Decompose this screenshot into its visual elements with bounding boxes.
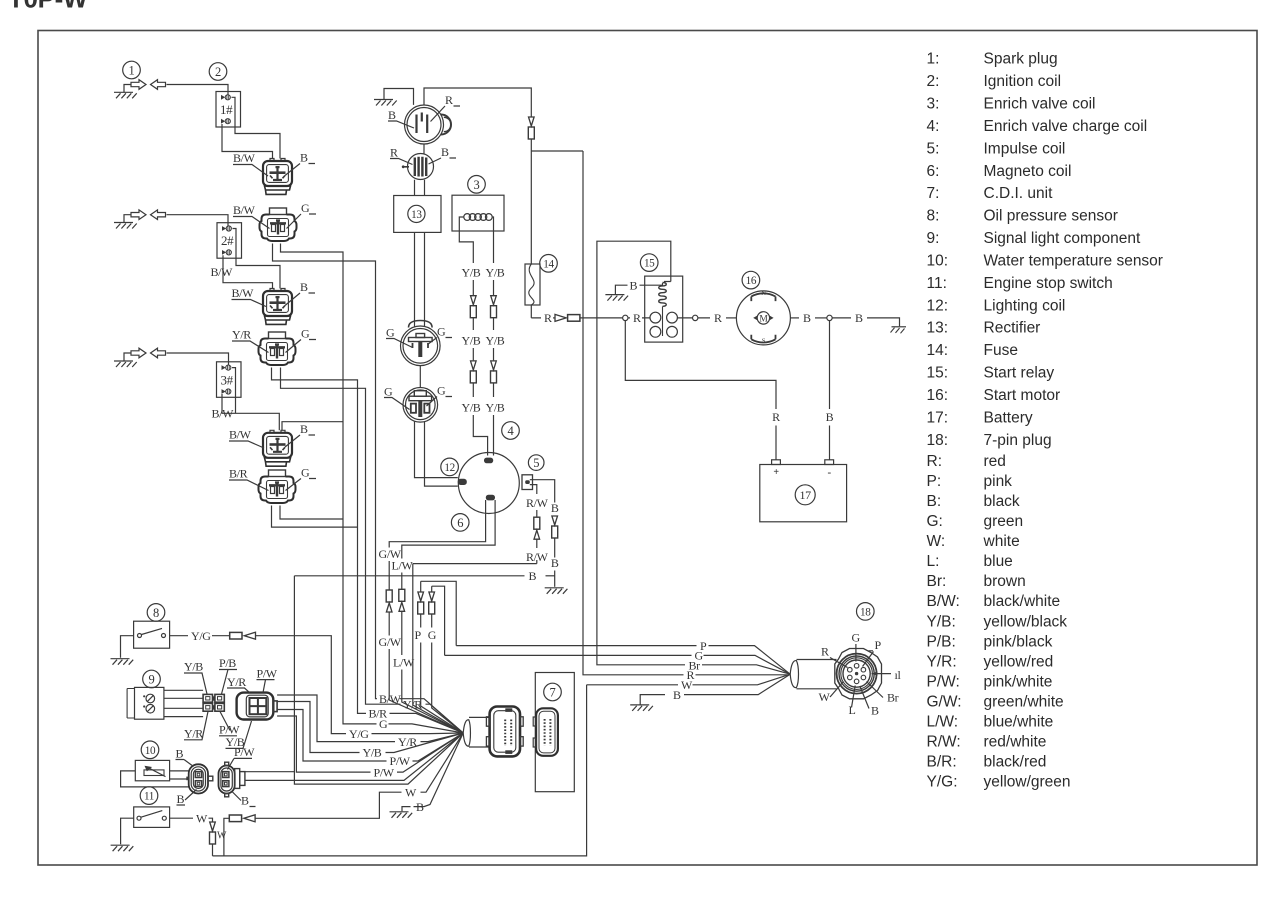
enrich valve coil box — [452, 195, 504, 231]
wire B/R net to CDI — [272, 368, 367, 714]
node B (battery) — [827, 315, 832, 320]
svg-text:pink: pink — [984, 473, 1013, 490]
svg-text:R: R — [445, 93, 453, 107]
svg-text:R: R — [544, 311, 552, 325]
svg-text:11: 11 — [144, 791, 154, 803]
svg-text:P/B:: P/B: — [927, 633, 956, 650]
svg-text:13:: 13: — [927, 320, 949, 337]
oil pressure sensor callout 8 — [147, 604, 165, 622]
svg-text:G: G — [301, 201, 310, 215]
svg-text:P:: P: — [927, 473, 942, 490]
svg-text:B/W:: B/W: — [927, 593, 960, 610]
signal light component callout 9 — [143, 670, 161, 688]
wire fuse to relay R — [531, 305, 541, 318]
ground (motor B right) — [891, 318, 907, 333]
wire B into relay coil — [640, 283, 663, 285]
node R (relay output) — [693, 315, 698, 320]
svg-text:Y/B: Y/B — [462, 266, 481, 280]
svg-text:Y/G:: Y/G: — [927, 774, 958, 791]
wire B impulse coil to ground — [530, 480, 555, 503]
label B/R conn B3 — [229, 467, 269, 491]
magneto left pin — [458, 479, 467, 485]
start motor — [736, 290, 790, 345]
ignition coil 1# — [216, 92, 241, 128]
wire + ground oil sensor — [111, 636, 134, 665]
svg-text:Y/G: Y/G — [191, 629, 211, 643]
impulse coil box — [522, 475, 533, 490]
label B row1 — [285, 151, 315, 176]
svg-text:Oil pressure sensor: Oil pressure sensor — [984, 208, 1118, 225]
wire W to plug — [587, 684, 678, 686]
svg-text:3:: 3: — [927, 96, 940, 113]
wire Y/B column left — [459, 217, 473, 263]
wires rectifier to lighting coil connectors — [415, 232, 425, 327]
wire P to plug — [456, 645, 696, 647]
inline connector R (horizontal) — [555, 314, 580, 321]
plug pin L — [854, 679, 859, 684]
ignition coil 3# — [217, 362, 242, 398]
svg-text:B/W: B/W — [233, 151, 256, 165]
wire motor to battery node B — [790, 317, 799, 319]
wire Br start relay to 7-pin plug — [597, 241, 685, 665]
label B round conn 2 — [429, 145, 457, 164]
wire B oval to junction — [245, 771, 295, 773]
label Y/R small conn — [184, 712, 208, 741]
svg-text:Y/B: Y/B — [462, 401, 481, 415]
label P/B small conn — [219, 656, 237, 694]
magneto coil callout 6 — [451, 514, 469, 532]
svg-text:R: R — [714, 311, 722, 325]
start relay box — [645, 276, 683, 342]
label B row3 — [285, 422, 315, 447]
plug pin G — [854, 664, 859, 669]
round connector G G (upper) — [401, 321, 441, 366]
svg-text:17:: 17: — [927, 409, 949, 426]
svg-text:Y/R: Y/R — [232, 328, 251, 342]
svg-text:Br:: Br: — [927, 573, 947, 590]
label B round conn 1 — [388, 108, 414, 128]
wire GG1 to GG2 — [419, 366, 421, 388]
svg-text:3: 3 — [474, 178, 480, 192]
svg-text:green/white: green/white — [984, 694, 1064, 711]
label G conn B3 — [286, 466, 317, 491]
svg-text:2:: 2: — [927, 73, 940, 90]
fuse box — [525, 264, 540, 305]
wire B oval to CDI fan — [245, 733, 464, 780]
svg-text:B: B — [855, 311, 863, 325]
wire P/W 2 to CDI fan — [277, 716, 370, 772]
connector (B/R G) — [259, 470, 296, 503]
svg-text:T0P-W: T0P-W — [8, 0, 88, 14]
svg-text:red: red — [984, 453, 1006, 470]
wire coil2# secondary B — [233, 229, 281, 289]
label Y/B small conn — [184, 660, 207, 695]
water temperature sensor box — [135, 760, 169, 780]
svg-text:R/W: R/W — [526, 496, 549, 510]
wire spark row2 to coil 2# — [167, 215, 229, 226]
wire B/R net join (connB3) — [272, 506, 358, 528]
lighting coil callout 12 — [441, 458, 459, 476]
svg-text:1#: 1# — [220, 102, 233, 117]
wire coil1# primary B/W — [222, 124, 273, 159]
label B plug — [860, 686, 879, 718]
svg-text:4:: 4: — [927, 118, 940, 135]
label L plug — [849, 686, 856, 718]
impulse coil callout 5 — [528, 455, 544, 471]
label R round conn 1 — [431, 93, 461, 122]
svg-text:yellow/red: yellow/red — [984, 653, 1054, 670]
svg-text:4: 4 — [508, 424, 515, 438]
svg-text:blue: blue — [984, 553, 1013, 570]
rectifier box 13 — [394, 196, 441, 233]
round connector G G (lower) — [403, 388, 438, 423]
wire G to plug — [445, 654, 692, 656]
svg-text:16: 16 — [746, 275, 757, 287]
inline connector B — [552, 516, 558, 538]
svg-text:B/W: B/W — [232, 286, 255, 300]
svg-text:Enrich valve coil: Enrich valve coil — [984, 96, 1096, 113]
svg-text:5:: 5: — [927, 140, 940, 157]
label B row2 — [285, 280, 315, 306]
round connector (B R, charge coil lead) — [405, 105, 452, 144]
spark plug gap row 1 — [131, 80, 166, 90]
wires round conn 2 to rectifier — [415, 180, 425, 196]
svg-text:B/W: B/W — [233, 203, 256, 217]
wire R net to 7-pin plug — [583, 151, 684, 675]
svg-text:B: B — [176, 747, 184, 761]
label R plug — [821, 645, 848, 668]
wire between round connectors — [423, 144, 425, 154]
wire R/W impulse coil to CDI — [530, 485, 537, 494]
plug pin R — [848, 667, 853, 672]
svg-text:9:: 9: — [927, 230, 940, 247]
inline connector W horizontal — [229, 815, 255, 822]
start motor callout 16 — [742, 271, 760, 289]
svg-text:3#: 3# — [221, 372, 234, 387]
svg-text:Y/G: Y/G — [349, 727, 369, 741]
label P/W oval conn top — [228, 745, 256, 769]
svg-text:Start motor: Start motor — [984, 387, 1061, 404]
svg-text:R: R — [390, 146, 398, 160]
svg-text:B/R:: B/R: — [927, 754, 957, 771]
svg-text:7: 7 — [550, 686, 556, 700]
wire W to CDI fan — [255, 792, 402, 818]
svg-text:L/W:: L/W: — [927, 714, 959, 731]
wire G net (coil connectors to CDI) — [281, 244, 377, 724]
inline connector on R feed line — [528, 117, 534, 139]
label W plug — [819, 682, 844, 705]
svg-text:black: black — [984, 493, 1020, 510]
small connector pair (signal light) — [203, 694, 224, 711]
svg-text:11:: 11: — [927, 275, 947, 292]
svg-text:Start relay: Start relay — [984, 365, 1055, 382]
svg-text:G/W:: G/W: — [927, 694, 962, 711]
label B/W row2 — [232, 286, 267, 307]
label Br plug — [867, 682, 899, 705]
inline connector G — [429, 592, 435, 614]
svg-text:10:: 10: — [927, 253, 949, 270]
engine stop switch callout 11 — [140, 787, 158, 805]
svg-text:Engine stop switch: Engine stop switch — [984, 275, 1113, 292]
CDI harness connector — [486, 707, 523, 757]
battery 17 — [760, 460, 847, 522]
label Y/R big conn — [227, 675, 250, 693]
plug pin Br — [861, 675, 866, 680]
oval connector right (harness) — [219, 762, 245, 797]
svg-text:6:: 6: — [927, 163, 940, 180]
inline connector Y/B right 1 — [491, 296, 497, 318]
svg-text:2#: 2# — [221, 233, 234, 248]
round connector (R B, rectifier lead) — [402, 154, 434, 180]
svg-text:G: G — [695, 649, 704, 663]
ground (CDI B) — [390, 812, 413, 818]
svg-text:P/B: P/B — [219, 656, 236, 670]
svg-text:B: B — [241, 794, 249, 808]
svg-text:8: 8 — [153, 606, 159, 620]
wire spark row3 to coil 3# — [167, 353, 229, 365]
label Y/R conn B2 — [232, 328, 269, 353]
ground (spark plug row 1) — [114, 85, 137, 99]
inline connector W vertical — [210, 822, 216, 844]
spark plug gap row 2 — [131, 210, 166, 220]
svg-text:Y/B:: Y/B: — [927, 613, 956, 630]
svg-text:10: 10 — [145, 745, 156, 757]
wire sensor body loop — [121, 771, 189, 787]
svg-text:G/W: G/W — [379, 635, 402, 649]
label B/W row1 — [233, 151, 268, 176]
svg-text:7:: 7: — [927, 185, 940, 202]
wire coil3# primary B/W — [222, 394, 279, 430]
cable knot at plug fan — [790, 661, 798, 688]
inline connector Y/G — [230, 632, 256, 639]
svg-text:Battery: Battery — [984, 409, 1033, 426]
ground (spark plug row 3) — [114, 353, 137, 367]
connector (B/W G, below coil 1) — [260, 208, 297, 241]
svg-text:G: G — [301, 466, 310, 480]
label G plug — [852, 631, 861, 662]
svg-text:B: B — [551, 501, 559, 515]
inline connector Y/B right 2 — [491, 361, 497, 383]
label G conn B2 — [286, 327, 317, 353]
svg-text:P/W: P/W — [234, 745, 255, 759]
svg-text:12:: 12: — [927, 297, 949, 314]
svg-text:G: G — [852, 631, 861, 645]
oval connector left (water temp) — [186, 764, 213, 793]
magneto top pin — [484, 458, 493, 464]
ground (impulse B) — [545, 588, 568, 594]
svg-text:Fuse: Fuse — [984, 342, 1018, 359]
wire top feed to fuse line — [424, 88, 531, 117]
svg-text:pink/black: pink/black — [984, 633, 1053, 650]
wire B net junction vertical — [294, 576, 463, 784]
label R round conn 2 — [390, 146, 413, 165]
svg-text:M: M — [759, 314, 768, 324]
svg-text:G:: G: — [927, 513, 943, 530]
svg-text:Y/B: Y/B — [462, 334, 481, 348]
svg-text:17: 17 — [800, 488, 812, 502]
svg-text:B: B — [416, 800, 424, 814]
wire B horizontal to ground — [294, 575, 524, 577]
wire G net down to CDI — [431, 586, 433, 592]
svg-text:14:: 14: — [927, 342, 949, 359]
svg-text:Lighting coil: Lighting coil — [984, 297, 1066, 314]
wire coil1# secondary B — [232, 97, 281, 158]
svg-text:W: W — [681, 678, 693, 692]
label B oval bottom-right — [232, 791, 256, 808]
wire G net joins (row3 B, connB3 G) — [280, 422, 343, 519]
magneto bottom pin — [486, 495, 495, 501]
wire + ground stop switch — [111, 818, 134, 851]
wire Y/R net to CDI — [281, 368, 401, 705]
big 4-pin connector (signal light harness) — [237, 693, 277, 720]
cut-off title text top-left — [8, 0, 88, 14]
svg-text:ıl: ıl — [895, 668, 902, 682]
svg-text:P: P — [875, 638, 882, 652]
svg-text:B/W: B/W — [229, 428, 252, 442]
label B/W row3 — [229, 428, 264, 449]
label B/W conn B1 — [233, 203, 270, 229]
svg-text:R: R — [772, 410, 780, 424]
svg-text:brown: brown — [984, 573, 1026, 590]
svg-text:Y/R:: Y/R: — [927, 653, 957, 670]
label P/W small conn — [219, 712, 240, 737]
svg-text:blue/white: blue/white — [984, 714, 1054, 731]
svg-text:B:: B: — [927, 493, 942, 510]
svg-text:Signal light component: Signal light component — [984, 230, 1142, 247]
7-pin plug 18 — [835, 649, 882, 699]
wire coil3# secondary — [232, 368, 236, 414]
svg-text:Enrich valve charge coil: Enrich valve charge coil — [984, 118, 1148, 135]
svg-text:B: B — [300, 422, 308, 436]
wire L/W magneto to CDI — [402, 500, 495, 559]
svg-text:Br: Br — [887, 691, 899, 705]
svg-text:P/W:: P/W: — [927, 674, 960, 691]
label G upper-left GG1 — [386, 326, 413, 348]
wire R relay node to battery + — [625, 321, 776, 409]
svg-text:Rectifier: Rectifier — [984, 320, 1041, 337]
svg-text:Y/B: Y/B — [486, 266, 505, 280]
wire Y/B column right — [492, 217, 493, 263]
inline connector Y/B left 2 — [470, 361, 476, 383]
svg-text:G: G — [384, 385, 393, 399]
connector (Y/R G) — [259, 332, 296, 365]
inline connector G/W — [386, 590, 392, 612]
bottom W rail — [213, 685, 587, 856]
svg-text:yellow/green: yellow/green — [984, 774, 1071, 791]
connector (ignition coil 3, B/W B) — [263, 430, 292, 466]
wire W branch up — [224, 818, 229, 856]
svg-text:Water temperature sensor: Water temperature sensor — [984, 253, 1163, 270]
node R (relay input) — [623, 315, 628, 320]
svg-text:yellow/black: yellow/black — [984, 613, 1068, 630]
wire Y/B to CDI fan — [277, 702, 359, 753]
label B/W below coil 3# — [212, 407, 235, 421]
connector (ignition coil 1, B/W B) — [263, 159, 292, 195]
wire W from stop switch — [170, 817, 193, 819]
svg-text:W: W — [196, 812, 208, 826]
svg-text:Y/B: Y/B — [486, 334, 505, 348]
label G upper-right GG1 — [428, 325, 453, 345]
svg-text:L:: L: — [927, 553, 940, 570]
inline connector L/W — [399, 589, 405, 611]
svg-text:red/white: red/white — [984, 734, 1047, 751]
svg-text:B/W: B/W — [211, 265, 234, 279]
enrich valve coil callout 3 — [468, 176, 486, 194]
wire R/W vertical to CDI — [413, 564, 463, 733]
svg-text:5: 5 — [533, 456, 539, 470]
label G conn B1 — [287, 201, 317, 229]
wires GG2 to magneto lighting coil pin — [415, 421, 458, 486]
plug pin P — [861, 667, 866, 672]
wire B/W net (coil connectors to CDI) — [273, 244, 378, 699]
svg-text:16:: 16: — [927, 387, 949, 404]
svg-text:W: W — [405, 785, 417, 799]
svg-text:L/W: L/W — [392, 559, 414, 573]
svg-text:B: B — [551, 556, 559, 570]
svg-text:1:: 1: — [927, 51, 940, 68]
plug pin W — [848, 675, 853, 680]
svg-text:B/R: B/R — [229, 467, 248, 481]
svg-text:Impulse coil: Impulse coil — [984, 140, 1066, 157]
wire Y/G to CDI fan — [256, 636, 346, 734]
ground (top middle) — [374, 89, 414, 106]
label P/W big conn top — [257, 666, 278, 692]
svg-text:7-pin plug: 7-pin plug — [984, 432, 1052, 449]
svg-text:P/W: P/W — [374, 765, 395, 779]
spark plug 1 callout circle — [123, 61, 141, 79]
svg-text:W: W — [819, 690, 831, 704]
svg-text:+: + — [773, 467, 779, 478]
inline connector Y/B left 1 — [470, 296, 476, 318]
label G lower-left GG2 — [384, 385, 410, 410]
cable to CDI connector — [469, 717, 490, 747]
cable body — [797, 660, 837, 689]
spark plug gap row 3 — [131, 348, 166, 358]
svg-text:N: N — [761, 290, 766, 297]
svg-text:18: 18 — [860, 606, 871, 618]
svg-text:Spark plug: Spark plug — [984, 51, 1058, 68]
start relay callout 15 — [640, 254, 658, 272]
svg-text:12: 12 — [444, 462, 455, 474]
svg-text:Y/R: Y/R — [227, 675, 246, 689]
svg-text:B: B — [441, 145, 449, 159]
svg-text:9: 9 — [149, 673, 155, 687]
wire P net branch to plug — [421, 581, 457, 645]
wires sensor to oval connector — [170, 771, 189, 779]
svg-text:Y/B: Y/B — [486, 401, 505, 415]
label B oval top-left — [176, 747, 194, 767]
label l plug right — [872, 668, 902, 682]
fuse callout 14 — [540, 254, 558, 272]
svg-text:13: 13 — [411, 209, 422, 221]
enrich valve charge coil callout 4 — [502, 422, 520, 440]
svg-text:Y/R: Y/R — [184, 727, 203, 741]
svg-text:G: G — [437, 384, 446, 398]
wire B bottom to CDI fan + ground — [414, 733, 464, 807]
label Y/B big conn bottom — [226, 721, 252, 749]
wires signal light to connector — [164, 690, 203, 716]
svg-text:Ignition coil: Ignition coil — [984, 73, 1062, 90]
svg-text:W:: W: — [927, 533, 946, 550]
svg-text:L/W: L/W — [393, 656, 415, 670]
svg-text:R: R — [821, 645, 829, 659]
svg-text:green: green — [984, 513, 1024, 530]
svg-text:-: - — [828, 466, 832, 478]
wire spark row1 to coil 1# — [167, 85, 229, 95]
svg-text:14: 14 — [543, 258, 554, 270]
svg-text:2: 2 — [215, 65, 221, 79]
svg-text:W: W — [217, 831, 227, 842]
